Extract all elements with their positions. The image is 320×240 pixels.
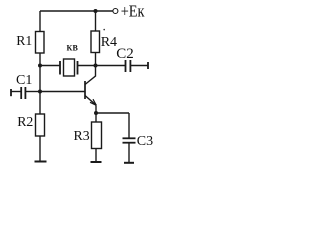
svg-text:R1: R1 — [16, 33, 32, 48]
svg-text:R3: R3 — [74, 128, 90, 143]
svg-text:R2: R2 — [17, 114, 33, 129]
svg-text:C3: C3 — [137, 134, 153, 149]
svg-text:КВ: КВ — [67, 44, 79, 53]
svg-text:R4: R4 — [101, 35, 117, 50]
svg-text:+Eк: +Eк — [121, 2, 145, 21]
svg-text:C2: C2 — [116, 46, 134, 62]
svg-text:C1: C1 — [16, 73, 32, 88]
